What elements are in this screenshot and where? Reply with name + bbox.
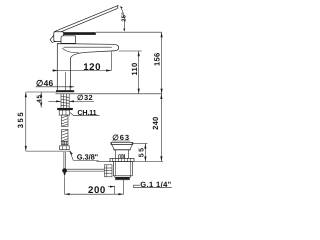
body and spout outline xyxy=(57,44,118,91)
flexible hose segment 1 (hatched) xyxy=(62,115,69,126)
drain neck xyxy=(115,150,128,159)
flexible hose segment 2 (hatched) xyxy=(62,129,69,141)
svg-text:120: 120 xyxy=(83,62,101,73)
basin line left of drain xyxy=(97,161,111,163)
arc arrow bottom xyxy=(123,29,125,32)
dimension 120 xyxy=(52,52,111,72)
drain body shoulder band xyxy=(115,176,131,177)
angle arc 25deg xyxy=(120,7,124,31)
overflow holes detail xyxy=(119,155,125,159)
drain body xyxy=(114,162,133,176)
cartridge cap under handle xyxy=(61,36,75,44)
spout inner fillet curve xyxy=(62,48,79,53)
threaded shank below deck xyxy=(61,94,69,108)
svg-text:45: 45 xyxy=(36,94,43,102)
pop-up rod vertical xyxy=(63,152,65,169)
hose threaded end band xyxy=(62,141,69,145)
handle nose block xyxy=(54,32,64,42)
raised handle tip bevel xyxy=(117,5,118,8)
drain tailpiece thread (dark) xyxy=(115,177,129,179)
dimension 110 xyxy=(119,51,142,94)
svg-text:∅46: ∅46 xyxy=(36,78,54,88)
raised handle line upper xyxy=(54,5,118,31)
base top extension line to 355 xyxy=(26,91,57,93)
svg-text:240: 240 xyxy=(151,116,160,129)
closed handle nose outline xyxy=(50,34,56,42)
dimension 200 xyxy=(65,176,124,195)
drain flange line xyxy=(113,149,130,151)
svg-text:200: 200 xyxy=(88,185,106,196)
svg-text:∅32: ∅32 xyxy=(77,93,93,102)
mounting washer flange xyxy=(57,108,73,110)
drain cap taper to flange xyxy=(112,144,133,149)
raised handle line lower xyxy=(57,9,118,34)
mounting nut xyxy=(59,110,69,115)
svg-text:∅63: ∅63 xyxy=(112,133,130,142)
closed handle lever (dark bar) xyxy=(58,32,96,35)
axis extension line under spout body xyxy=(65,72,67,90)
drain plug cap xyxy=(111,142,133,144)
dimension 156 xyxy=(161,32,163,94)
svg-text:55: 55 xyxy=(139,147,146,158)
svg-text:355: 355 xyxy=(16,111,25,128)
extension line 355 bottom xyxy=(26,150,71,152)
svg-text:G.3/8": G.3/8" xyxy=(77,152,99,161)
dimension 45 xyxy=(40,92,42,108)
svg-text:156: 156 xyxy=(153,53,162,66)
top reference line xyxy=(96,31,162,33)
dimension 55 xyxy=(133,144,163,162)
dimension 355 xyxy=(25,92,27,151)
drain: knurled nut on left xyxy=(104,165,112,177)
svg-text:25°: 25° xyxy=(121,12,128,22)
hose end nut G3/8 collar xyxy=(60,146,70,150)
rod ball joint xyxy=(62,168,67,173)
dimension 240 xyxy=(160,94,162,162)
deck line xyxy=(56,93,162,95)
svg-text:110: 110 xyxy=(130,62,139,75)
arc arrow top xyxy=(120,6,123,9)
base plate (escutcheon) xyxy=(56,90,74,92)
spout inner top line xyxy=(64,46,112,48)
horizontal rod to drain xyxy=(67,168,104,170)
rubber gasket (hatched) xyxy=(110,158,134,161)
